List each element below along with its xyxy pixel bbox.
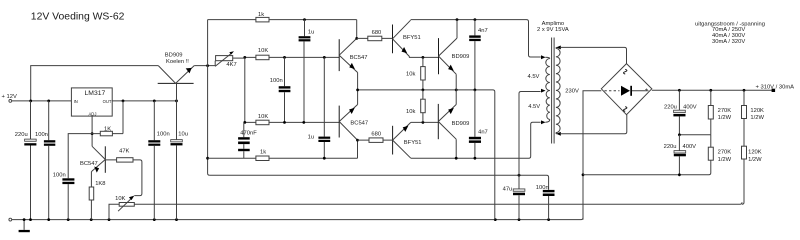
svg-text:OUT: OUT	[103, 99, 112, 104]
wire BD909 emitter node	[194, 61, 215, 67]
wire LM317 OUT rail	[112, 100, 176, 102]
svg-text:100n: 100n	[536, 185, 549, 191]
svg-text:10k: 10k	[406, 71, 415, 77]
core	[552, 38, 555, 144]
wire bottom 1k row	[208, 157, 358, 160]
wire BD909 bottom collector	[455, 139, 457, 158]
title	[31, 11, 125, 22]
wire supply rail y175	[210, 174, 549, 190]
svg-text:10k: 10k	[406, 109, 415, 115]
svg-text:ADJ: ADJ	[89, 112, 97, 117]
node dot 1u top tap	[303, 18, 306, 21]
trimmer 4K7	[215, 51, 245, 68]
resistor 47K	[105, 149, 142, 196]
transistor Q BC547 (feedback)	[80, 146, 105, 173]
potentiometer 10K	[109, 196, 742, 220]
svg-text:220u: 220u	[664, 105, 677, 111]
capacitor 4n7 (top)	[469, 20, 487, 90]
svg-text:10u: 10u	[178, 131, 188, 137]
wire bottom 0V rail	[12, 218, 583, 220]
wire 4K7 to base row B column	[244, 57, 246, 122]
wire bridge minus to 0V	[582, 91, 602, 220]
wire secondary bottom to bridge	[561, 115, 627, 134]
resistor 270K 1/2W (bottom)	[708, 135, 731, 163]
transistor Q BFY51 (bottom)	[393, 122, 422, 158]
svg-text:+ 12V: + 12V	[2, 94, 17, 100]
svg-text:2 x 9V 15VA: 2 x 9V 15VA	[537, 27, 569, 33]
bridge rectifier	[601, 64, 652, 115]
svg-text:1k: 1k	[260, 150, 266, 156]
svg-text:LM317: LM317	[85, 90, 106, 97]
svg-text:BD909: BD909	[452, 121, 470, 127]
svg-text:+: +	[645, 88, 649, 94]
ground	[19, 220, 30, 233]
svg-text:220u: 220u	[15, 132, 28, 138]
transistor Q BFY51 (top)	[393, 20, 421, 56]
capacitor 100n (ADJ decouple)	[53, 134, 92, 220]
svg-text:680: 680	[371, 132, 381, 138]
capacitor 220u input	[15, 101, 37, 220]
wire +310V rail	[652, 84, 794, 92]
wire base row bottom	[243, 121, 339, 124]
svg-text:BC547: BC547	[350, 121, 368, 127]
primary winding top 4.5V	[546, 59, 550, 91]
wire BD909 emitters column	[455, 74, 457, 104]
wire mid rail	[356, 89, 495, 220]
capacitor 4n7 (bottom)	[469, 90, 488, 158]
svg-text:230V: 230V	[565, 89, 579, 95]
transformer T1 Amplimo	[528, 21, 579, 143]
node junction dots on +12V wire	[29, 100, 50, 103]
regulator U1 LM317	[71, 88, 112, 117]
svg-text:47u: 47u	[503, 186, 513, 192]
primary winding bottom 4.5V	[546, 91, 550, 120]
resistor 10K (top)	[256, 48, 269, 60]
wire top rail right segment	[411, 18, 541, 57]
resistor 270K 1/2W (top)	[708, 90, 731, 135]
svg-text:BD909: BD909	[452, 54, 470, 60]
resistor 1K8	[89, 172, 105, 220]
resistor 120K 1/2W (top)	[742, 90, 765, 146]
transistor Q BC547 (osc bottom)	[339, 105, 368, 141]
node dots on OUT rail	[122, 100, 178, 103]
info text block	[695, 21, 765, 44]
transistor Q BC547 (osc top)	[339, 38, 367, 72]
svg-text:10K: 10K	[258, 114, 268, 120]
node +12V input terminal	[2, 94, 17, 102]
svg-text:270K: 270K	[718, 108, 732, 114]
svg-text:BC547: BC547	[350, 55, 368, 61]
capacitor 470nF	[238, 122, 257, 158]
svg-text:100n: 100n	[157, 131, 170, 137]
wire BC547 top collector to rail	[355, 20, 358, 40]
transistor Q BD909 (osc bottom)	[438, 104, 469, 139]
svg-text:1u: 1u	[308, 29, 314, 35]
svg-text:Koelen !!: Koelen !!	[166, 59, 189, 65]
capacitor 10u (OUT rail)	[171, 101, 188, 220]
svg-text:1K: 1K	[104, 126, 111, 132]
resistor 10k (bottom vertical)	[406, 90, 425, 123]
wire secondary top to bridge	[561, 47, 627, 63]
transistor Q BD909 (osc top)	[439, 38, 470, 74]
svg-text:220u: 220u	[664, 144, 677, 150]
resistor 10k (top vertical)	[406, 57, 425, 90]
svg-text:470nF: 470nF	[240, 131, 257, 137]
svg-text:BC547: BC547	[80, 161, 98, 167]
svg-text:12V Voeding WS-62: 12V Voeding WS-62	[31, 11, 125, 22]
resistor 680 (bottom)	[358, 132, 393, 143]
capacitor 100n (OUT rail)	[148, 101, 169, 220]
capacitor 100n (coupling mid)	[270, 57, 291, 122]
wire BFY51 bottom emitter to BD909 base row	[411, 121, 439, 124]
svg-text:4.5V: 4.5V	[528, 74, 540, 80]
wire base row top	[243, 56, 339, 59]
node dots on bottom rail	[23, 218, 550, 221]
capacitor 100n input	[35, 101, 55, 220]
wire caps midpoint to 270K chain	[678, 133, 711, 136]
svg-text:400V: 400V	[683, 105, 697, 111]
svg-text:270K: 270K	[718, 150, 732, 156]
svg-text:1K8: 1K8	[95, 181, 105, 187]
node 0V terminal	[9, 218, 12, 221]
capacitor 47u	[503, 175, 525, 219]
capacitor 1u (top)	[299, 20, 315, 123]
svg-text:47K: 47K	[119, 149, 129, 155]
svg-text:120K: 120K	[750, 108, 764, 114]
svg-text:30mA / 320V: 30mA / 320V	[712, 39, 745, 45]
wire emitter column	[357, 73, 359, 105]
svg-text:10K: 10K	[258, 48, 268, 54]
secondary winding 230V	[556, 48, 560, 132]
resistor 680 (top)	[357, 30, 393, 41]
wire mid-rail feedback column	[519, 92, 541, 176]
svg-text:1k: 1k	[258, 12, 264, 18]
wire output minus rail y174.8	[583, 160, 711, 176]
wire oscillator supply column	[206, 20, 209, 176]
wire BC547 bottom collector to 1k row	[356, 139, 359, 158]
svg-text:IN: IN	[74, 99, 78, 104]
svg-text:1/2W: 1/2W	[748, 157, 762, 163]
wire bottom collector rail to transformer	[411, 122, 541, 159]
wire +12V loop up to BD909 collector	[31, 66, 159, 101]
svg-text:100n: 100n	[270, 78, 283, 84]
svg-text:+ 310V / 30mA: + 310V / 30mA	[756, 84, 795, 90]
svg-text:1/2W: 1/2W	[750, 115, 764, 121]
svg-text:4.5V: 4.5V	[528, 104, 540, 110]
capacitor 220u 400V (top)	[664, 90, 697, 135]
svg-text:BFY51: BFY51	[404, 140, 422, 146]
resistor 1k (bottom)	[256, 150, 269, 161]
svg-text:680: 680	[372, 30, 382, 36]
resistor 10K (bottom)	[256, 114, 269, 125]
svg-text:100n: 100n	[35, 132, 48, 138]
wire LM317 ADJ	[91, 116, 94, 146]
svg-text:100n: 100n	[53, 173, 66, 179]
svg-text:1/2W: 1/2W	[718, 157, 732, 163]
resistor R 1K (ADJ-OUT)	[92, 101, 123, 136]
svg-text:1/2W: 1/2W	[718, 115, 732, 121]
svg-text:10K: 10K	[115, 196, 125, 202]
svg-text:400V: 400V	[683, 144, 697, 150]
svg-text:BFY51: BFY51	[403, 35, 421, 41]
wire top rail left segment	[208, 19, 357, 21]
svg-text:4n7: 4n7	[478, 28, 488, 34]
wire BFY51 top emitter to BD909 base row	[409, 56, 438, 59]
svg-text:120K: 120K	[748, 150, 762, 156]
capacitor 220u 400V (bottom)	[664, 135, 697, 175]
transistor Q BD909 (pass, Koelen!!)	[158, 52, 195, 101]
resistor 120K 1/2W (bottom)	[742, 146, 763, 204]
svg-text:1u: 1u	[308, 135, 314, 141]
resistor 1k (top)	[256, 12, 269, 22]
wire BD909 top collector	[456, 20, 458, 38]
capacitor 100n (supply decouple)	[536, 185, 555, 220]
svg-text:BD909: BD909	[165, 52, 183, 58]
wire +12V input to LM317 IN	[12, 100, 72, 102]
capacitor 1u (bottom)	[308, 57, 331, 158]
svg-text:4n7: 4n7	[478, 130, 488, 136]
svg-text:4K7: 4K7	[226, 62, 236, 68]
